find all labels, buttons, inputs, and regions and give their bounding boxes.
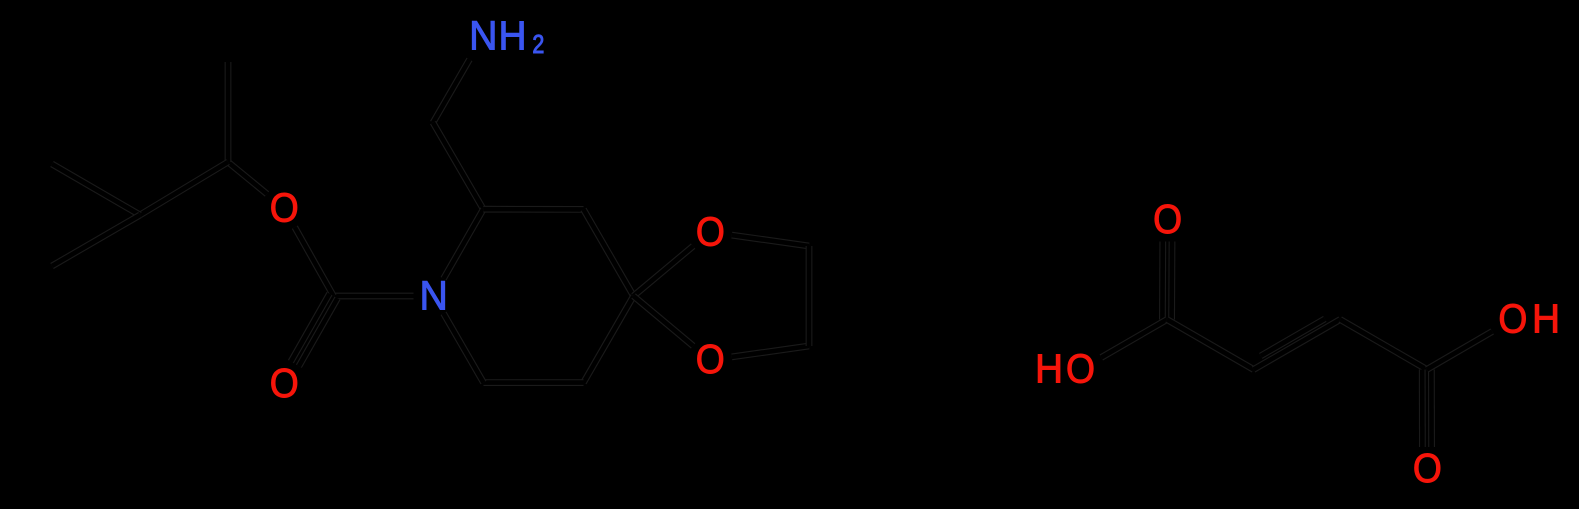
bond CH2-NH2: [433, 59, 470, 122]
svg-text:N: N: [420, 274, 448, 319]
acid1 bond C-OH: [1101, 320, 1167, 358]
svg-text:H: H: [1532, 297, 1560, 342]
svg-text:N: N: [469, 14, 497, 59]
acid1 C=O double line 2: [1168, 242, 1175, 320]
acid2 C=O double line 1: [1419, 370, 1426, 448]
svg-text:H: H: [498, 14, 526, 59]
alkyl bond CH-CH: [140, 162, 228, 215]
ring bond C6-C5: [584, 209, 634, 296]
amide bond N8-C carbonyl: [334, 293, 414, 300]
alkyl methyl up: [225, 62, 232, 162]
dioxolane bond O4-CH2: [732, 346, 809, 357]
Boc C=O double line 1: [291, 294, 330, 362]
dioxolane bond O1-CH2: [732, 235, 809, 246]
chain bond C1-C2: [1167, 320, 1254, 370]
Boc C=O double line 2: [299, 298, 338, 366]
svg-text:O: O: [270, 362, 299, 407]
svg-text:O: O: [1153, 197, 1182, 242]
svg-text:2: 2: [532, 30, 544, 60]
bond C7-CH2 aminomethyl: [433, 123, 483, 210]
svg-text:O: O: [696, 338, 725, 383]
alkyl methyl down-left: [52, 215, 140, 266]
acid2 C=O double line 2: [1428, 370, 1435, 448]
acid2 bond C-OH: [1427, 332, 1492, 370]
svg-text:O: O: [696, 210, 725, 255]
chain bond C3-C4: [1340, 320, 1427, 370]
alkene C2=C3 line 2: [1261, 319, 1325, 356]
ester bond O-CH: [228, 162, 267, 194]
acid1 C=O double line 1: [1159, 242, 1166, 320]
alkene C2=C3 line 1: [1254, 320, 1341, 370]
svg-text:O: O: [1066, 347, 1095, 392]
ring bond C10-C9: [484, 379, 584, 386]
svg-text:O: O: [1498, 297, 1527, 342]
ring bond N8-C7: [444, 209, 484, 279]
dioxolane bond C5-O1: [634, 246, 694, 296]
ring bond C7-C6: [483, 206, 583, 213]
ring bond C5-C10: [584, 296, 634, 383]
svg-text:O: O: [1413, 447, 1442, 492]
dioxolane bond CH2-CH2: [806, 246, 813, 346]
ring bond C9-N8: [444, 313, 484, 382]
svg-text:H: H: [1035, 347, 1063, 392]
dioxolane bond C5-O4: [634, 296, 694, 346]
svg-text:O: O: [270, 186, 299, 231]
ester bond C-O: [295, 227, 334, 296]
alkyl methyl up-left: [52, 164, 140, 215]
